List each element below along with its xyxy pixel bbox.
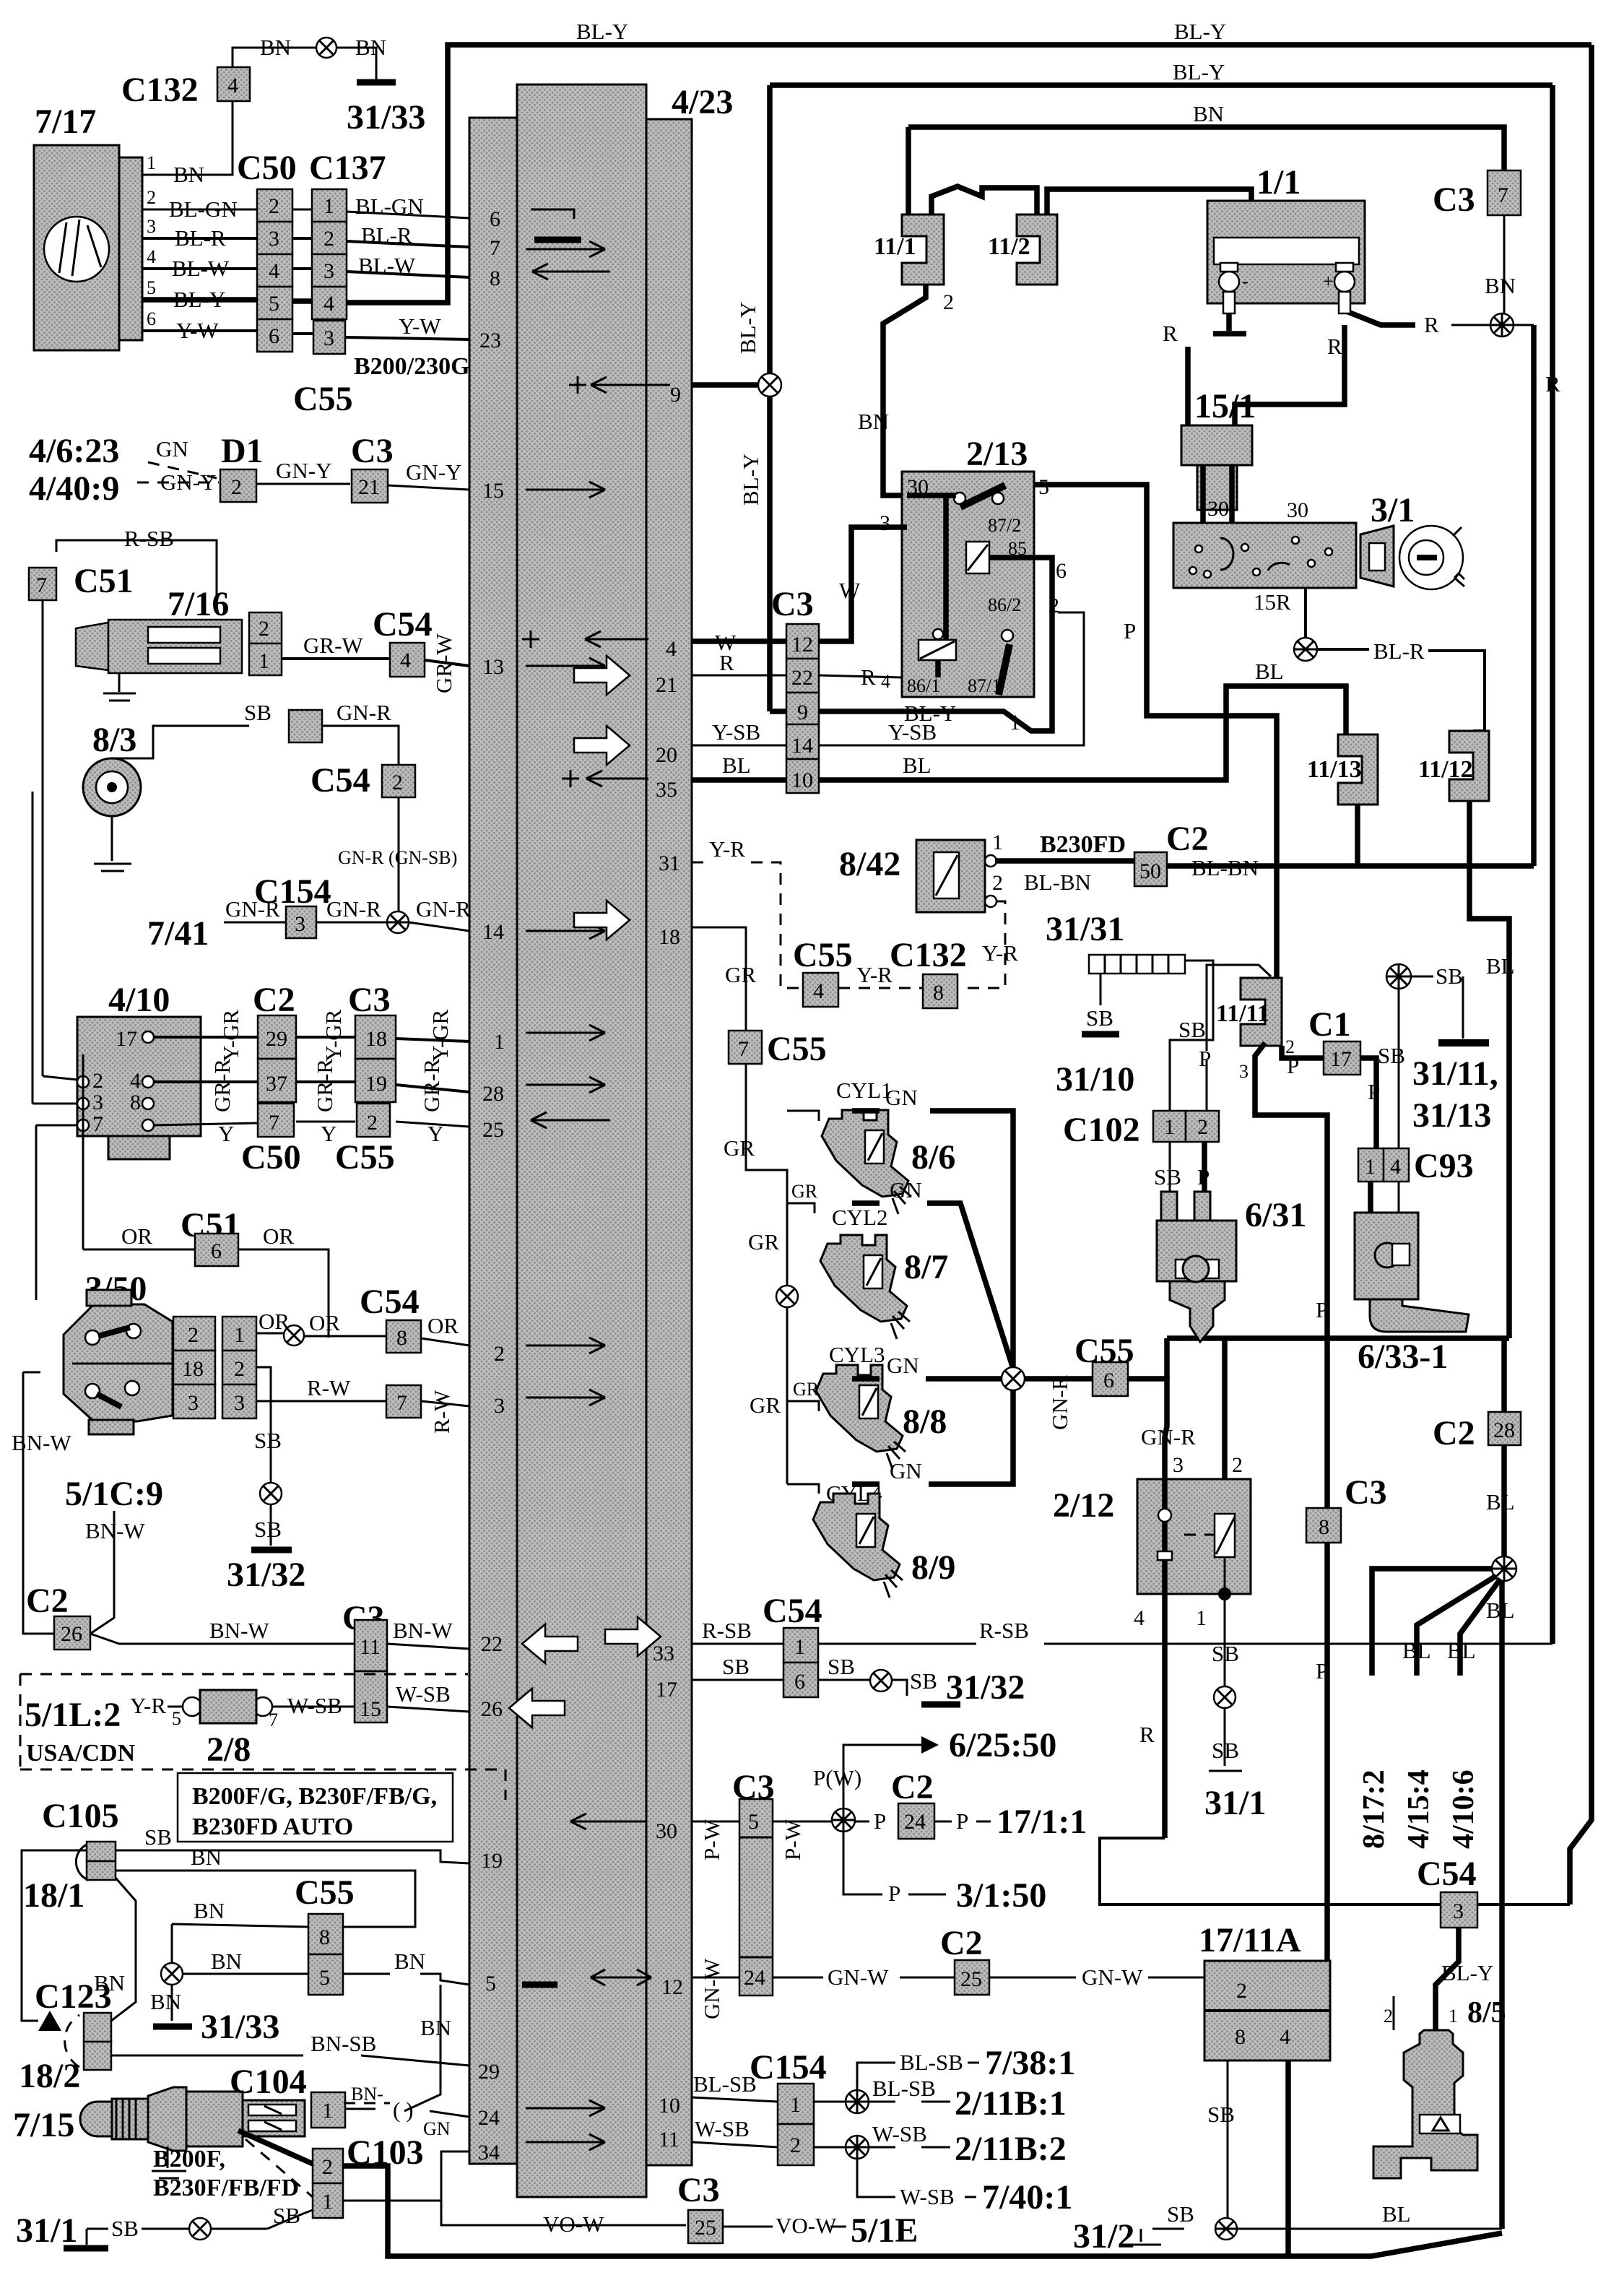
svg-text:USA/CDN: USA/CDN	[26, 1740, 136, 1767]
P down to 3/1:50	[843, 1832, 882, 1894]
svg-text:4/10: 4/10	[108, 981, 170, 1019]
pin3 wire down to P bus	[1255, 1043, 1327, 1961]
svg-text:31/2: 31/2	[1073, 2217, 1134, 2255]
svg-text:8/5: 8/5	[1467, 1996, 1506, 2029]
ignition coil 6/33-1	[1368, 1182, 1373, 1257]
svg-text:R-W: R-W	[307, 1375, 351, 1400]
svg-text:5: 5	[172, 1708, 181, 1729]
svg-text:1: 1	[322, 2099, 333, 2123]
svg-text:BN-W: BN-W	[12, 1430, 71, 1455]
svg-text:6: 6	[1103, 1369, 1114, 1392]
svg-text:BN: BN	[420, 2015, 451, 2040]
svg-text:C93: C93	[1414, 1147, 1474, 1185]
svg-text:2: 2	[92, 1069, 103, 1093]
svg-text:19: 19	[481, 1849, 503, 1873]
svg-text:C3: C3	[351, 432, 394, 470]
svg-text:31/11,: 31/11,	[1412, 1054, 1498, 1093]
engine variant box	[178, 1773, 453, 1842]
ECU control unit 4/23 right strip	[646, 119, 692, 2165]
svg-text:C55: C55	[293, 380, 353, 418]
svg-text:C54: C54	[1417, 1855, 1477, 1893]
svg-text:SB: SB	[1378, 1043, 1405, 1068]
svg-text:28: 28	[482, 1082, 504, 1106]
svg-text:17: 17	[1330, 1047, 1352, 1071]
svg-text:31/32: 31/32	[946, 1668, 1025, 1707]
svg-text:6: 6	[490, 207, 500, 231]
svg-text:BN: BN	[260, 35, 291, 60]
svg-text:Y-GR: Y-GR	[218, 1009, 243, 1062]
svg-text:1: 1	[1164, 1115, 1175, 1139]
ECU control unit 4/23 middle strip	[517, 84, 646, 2197]
svg-text:2: 2	[188, 1323, 199, 1347]
svg-text:29: 29	[266, 1027, 287, 1051]
svg-text:24: 24	[744, 1966, 765, 1990]
svg-text:2: 2	[269, 194, 279, 218]
svg-text:C2: C2	[1433, 1414, 1475, 1452]
connector C93	[1358, 1148, 1384, 1182]
BN-SB row to pin 29	[111, 2055, 469, 2066]
svg-text:7: 7	[738, 1037, 749, 1061]
svg-text:1: 1	[992, 831, 1003, 854]
svg-text:BL-Y: BL-Y	[1174, 19, 1226, 44]
svg-text:4/10:6: 4/10:6	[1447, 1769, 1480, 1849]
svg-text:GR: GR	[791, 1181, 818, 1202]
svg-text:GN: GN	[156, 436, 188, 461]
svg-text:11/1: 11/1	[874, 233, 916, 260]
svg-text:5/1L:2: 5/1L:2	[25, 1696, 121, 1734]
connector 11/12	[1449, 731, 1489, 801]
svg-text:P: P	[1316, 1297, 1328, 1322]
svg-text:BL-Y: BL-Y	[576, 19, 628, 44]
svg-text:8: 8	[1319, 1515, 1329, 1539]
svg-text:23: 23	[479, 329, 501, 352]
svg-text:BL-Y: BL-Y	[173, 287, 225, 312]
svg-text:GR: GR	[793, 1379, 820, 1400]
svg-text:BL-BN: BL-BN	[1191, 855, 1259, 880]
svg-text:C50: C50	[241, 1138, 301, 1176]
svg-text:8: 8	[933, 981, 944, 1005]
svg-text:8: 8	[396, 1326, 407, 1350]
svg-text:18/1: 18/1	[23, 1876, 84, 1915]
svg-text:15R: 15R	[1254, 589, 1291, 615]
svg-text:BL-BN: BL-BN	[1024, 870, 1091, 895]
svg-text:P(W): P(W)	[813, 1765, 861, 1790]
svg-text:5/1C:9: 5/1C:9	[65, 1475, 163, 1513]
svg-text:3: 3	[324, 259, 334, 283]
connector 11/1	[902, 214, 944, 285]
svg-text:31/33: 31/33	[347, 98, 425, 136]
svg-text:C132: C132	[890, 936, 967, 974]
svg-text:P-W: P-W	[780, 1819, 805, 1860]
svg-text:+: +	[1323, 271, 1334, 292]
splice BN/R	[1490, 313, 1514, 337]
svg-text:25: 25	[960, 1967, 982, 1991]
svg-text:7: 7	[396, 1391, 407, 1415]
BN splice to ground 31/33	[161, 1963, 183, 1985]
svg-text:W-SB: W-SB	[695, 2116, 750, 2141]
svg-text:7: 7	[490, 236, 500, 260]
svg-text:BL: BL	[1486, 1489, 1515, 1514]
svg-text:26: 26	[481, 1697, 503, 1721]
svg-text:17: 17	[116, 1027, 137, 1051]
svg-text:1: 1	[147, 152, 156, 173]
svg-text:BN-: BN-	[351, 2084, 383, 2105]
svg-text:BL: BL	[1486, 1598, 1515, 1623]
svg-text:R: R	[719, 650, 734, 675]
svg-text:P-W: P-W	[699, 1819, 724, 1860]
wires below 11/13 11/12	[1355, 805, 1360, 866]
svg-text:C1: C1	[1308, 1005, 1351, 1044]
svg-text:1/1: 1/1	[1256, 163, 1300, 201]
svg-text:8: 8	[490, 266, 500, 290]
svg-text:6: 6	[269, 324, 279, 348]
svg-text:11/12: 11/12	[1418, 756, 1473, 783]
svg-text:Y-GR: Y-GR	[321, 1009, 346, 1062]
svg-text:1: 1	[324, 194, 334, 218]
W net	[692, 527, 907, 641]
svg-text:4: 4	[881, 671, 890, 692]
svg-text:15: 15	[482, 479, 504, 503]
svg-text:19: 19	[365, 1072, 387, 1096]
BN from C55-5 to pin 5	[343, 1974, 469, 1985]
svg-text:3/1:50: 3/1:50	[956, 1876, 1046, 1915]
svg-text:5: 5	[147, 277, 156, 298]
svg-text:4: 4	[1280, 2025, 1290, 2049]
svg-text:10: 10	[659, 2094, 680, 2118]
svg-text:2: 2	[992, 871, 1003, 895]
svg-text:B230FD AUTO: B230FD AUTO	[192, 1813, 353, 1840]
svg-text:3: 3	[324, 326, 334, 350]
svg-text:2: 2	[943, 290, 954, 314]
svg-text:P: P	[1124, 618, 1136, 643]
svg-text:BL: BL	[1382, 2201, 1411, 2227]
svg-text:SB: SB	[1167, 2201, 1194, 2227]
svg-text:2: 2	[1384, 2006, 1393, 2027]
BL row	[692, 686, 1346, 780]
svg-text:OR: OR	[309, 1310, 340, 1335]
svg-text:6/25:50: 6/25:50	[949, 1726, 1056, 1764]
svg-text:C3: C3	[1433, 181, 1475, 219]
svg-text:2: 2	[1048, 594, 1059, 617]
svg-text:SB: SB	[111, 2216, 139, 2241]
svg-text:7/41: 7/41	[147, 914, 209, 953]
svg-text:Y-GR: Y-GR	[427, 1009, 453, 1062]
BL-R to 11/12	[1317, 649, 1485, 731]
svg-text:8: 8	[319, 1925, 330, 1949]
svg-text:B230FD: B230FD	[1040, 831, 1126, 858]
svg-text:2/11B:2: 2/11B:2	[955, 2130, 1067, 2168]
svg-text:C54: C54	[373, 605, 433, 643]
svg-text:2/12: 2/12	[1053, 1486, 1114, 1525]
svg-text:GR: GR	[748, 1229, 779, 1254]
svg-text:R-SB: R-SB	[124, 526, 174, 551]
svg-text:GN-W: GN-W	[1082, 1964, 1143, 1990]
svg-text:R: R	[1139, 1722, 1155, 1747]
svg-text:7/16: 7/16	[168, 585, 229, 623]
wire GR-W to C54-4	[282, 659, 469, 666]
svg-text:BL: BL	[722, 753, 751, 778]
svg-text:Y: Y	[427, 1121, 443, 1146]
svg-text:2: 2	[322, 2155, 333, 2179]
svg-text:B200F/G, B230F/FB/G,: B200F/G, B230F/FB/G,	[192, 1783, 437, 1810]
svg-text:GN-W: GN-W	[828, 1964, 889, 1990]
svg-text:1: 1	[494, 1030, 505, 1054]
svg-text:GN-R: GN-R	[1047, 1375, 1072, 1430]
battery plus down to fuse	[1235, 325, 1345, 425]
svg-text:1: 1	[1196, 1606, 1207, 1630]
svg-text:2: 2	[231, 475, 242, 499]
svg-text:1: 1	[1365, 1155, 1376, 1179]
svg-text:SB: SB	[1154, 1164, 1181, 1189]
Y-SB row	[692, 612, 1084, 745]
svg-text:Y-SB: Y-SB	[712, 719, 760, 745]
svg-text:BN: BN	[355, 35, 386, 60]
wire rows 7/17 to C50/C137	[142, 209, 469, 218]
connector 11/13	[1338, 734, 1378, 805]
svg-text:4: 4	[400, 649, 411, 672]
svg-text:B230F/FB/FD: B230F/FB/FD	[153, 2175, 299, 2201]
svg-text:GN: GN	[887, 1353, 919, 1378]
svg-text:8: 8	[130, 1091, 141, 1114]
svg-text:C2: C2	[891, 1768, 934, 1806]
svg-text:SB: SB	[1178, 1017, 1206, 1042]
svg-text:7: 7	[1498, 183, 1508, 207]
svg-text:4: 4	[147, 246, 156, 267]
svg-text:15: 15	[360, 1697, 381, 1721]
svg-text:2: 2	[259, 617, 269, 641]
svg-text:BL-Y: BL-Y	[738, 454, 763, 506]
svg-text:BN: BN	[211, 1949, 242, 1974]
svg-text:C3: C3	[771, 585, 814, 623]
svg-text:R: R	[1327, 334, 1342, 359]
svg-text:GN-R: GN-R	[225, 896, 280, 922]
svg-text:2: 2	[234, 1357, 245, 1381]
svg-text:BL-R: BL-R	[1373, 638, 1425, 664]
svg-text:CYL1: CYL1	[836, 1078, 893, 1103]
svg-text:BN-SB: BN-SB	[311, 2031, 376, 2056]
svg-text:B200F,: B200F,	[153, 2146, 225, 2172]
svg-text:BL-GN: BL-GN	[355, 194, 424, 219]
svg-text:22: 22	[481, 1632, 503, 1656]
svg-text:BN: BN	[173, 162, 204, 187]
svg-text:C3: C3	[1345, 1473, 1387, 1512]
svg-text:3: 3	[1239, 1061, 1249, 1082]
wire BL-Y bus 2	[770, 82, 1553, 88]
svg-text:BN: BN	[194, 1898, 225, 1923]
OR row to C54-8	[256, 1333, 469, 1345]
svg-text:CYL3: CYL3	[829, 1342, 885, 1367]
svg-text:GN: GN	[890, 1458, 922, 1483]
svg-text:OR: OR	[263, 1223, 294, 1249]
svg-text:BL: BL	[1486, 953, 1515, 979]
relay coil 2	[919, 640, 956, 660]
svg-text:SB: SB	[1436, 963, 1463, 989]
svg-text:3: 3	[494, 1394, 505, 1418]
svg-text:2/11B:1: 2/11B:1	[955, 2084, 1067, 2123]
svg-text:4: 4	[130, 1069, 141, 1093]
svg-text:7: 7	[269, 1709, 278, 1730]
svg-text:31/31: 31/31	[1046, 910, 1124, 948]
svg-text:8/8: 8/8	[903, 1403, 947, 1441]
svg-text:6: 6	[211, 1239, 222, 1263]
svg-text:GN: GN	[890, 1177, 922, 1202]
svg-text:4/6:23: 4/6:23	[29, 432, 119, 470]
svg-text:R: R	[1163, 321, 1178, 346]
right strip pin numbers	[653, 383, 683, 2151]
svg-text:BL-SB: BL-SB	[693, 2071, 757, 2097]
svg-text:6: 6	[794, 1670, 805, 1694]
svg-text:SB: SB	[1207, 2102, 1235, 2127]
svg-text:14: 14	[791, 734, 813, 758]
svg-text:15/1: 15/1	[1194, 387, 1256, 425]
svg-text:BL-SB: BL-SB	[900, 2050, 963, 2075]
svg-text:BL-GN: BL-GN	[169, 196, 238, 222]
svg-text:14: 14	[482, 920, 504, 944]
svg-text:R: R	[861, 664, 876, 690]
svg-text:C50: C50	[237, 149, 297, 187]
svg-text:30: 30	[656, 1819, 677, 1843]
svg-text:3: 3	[92, 1091, 103, 1114]
svg-text:R-W: R-W	[429, 1390, 454, 1434]
svg-text:BN: BN	[150, 1989, 181, 2014]
switch 15R down to splice	[1304, 588, 1307, 638]
svg-text:R: R	[1424, 312, 1439, 337]
fuel pump 8/5	[1373, 1996, 1477, 2178]
svg-text:6: 6	[147, 308, 156, 329]
svg-text:18: 18	[659, 925, 680, 949]
svg-text:3: 3	[295, 912, 305, 936]
svg-text:4: 4	[227, 74, 238, 97]
heavy wire C103-2 to bottom line	[343, 2166, 1502, 2256]
svg-text:33: 33	[653, 1642, 674, 1665]
thick wire sensor to C103	[238, 2131, 313, 2164]
svg-text:OR: OR	[121, 1223, 152, 1249]
svg-text:1: 1	[1449, 2006, 1458, 2027]
svg-text:BN: BN	[191, 1845, 222, 1870]
relay contacts	[954, 493, 965, 504]
svg-text:34: 34	[478, 2141, 500, 2164]
svg-text:10: 10	[791, 768, 813, 792]
svg-text:50: 50	[1139, 859, 1161, 883]
svg-text:8/42: 8/42	[839, 845, 900, 883]
svg-text:W-SB: W-SB	[396, 1681, 451, 1707]
svg-text:5: 5	[269, 292, 279, 316]
svg-text:31/13: 31/13	[1412, 1096, 1491, 1135]
svg-text:17: 17	[656, 1678, 677, 1702]
svg-text:P: P	[1368, 1079, 1380, 1104]
in-bar arrows	[509, 209, 670, 2150]
GN row CYL1	[852, 1111, 1013, 1379]
svg-text:GN-R: GN-R	[416, 896, 471, 922]
svg-text:7: 7	[269, 1111, 279, 1135]
svg-text:C2: C2	[26, 1582, 69, 1620]
svg-text:BL: BL	[903, 753, 932, 778]
BN bus drop to 11/1 and zigzag link	[906, 127, 911, 214]
svg-text:21: 21	[656, 673, 677, 697]
svg-text:SB: SB	[910, 1668, 937, 1694]
svg-text:8/3: 8/3	[92, 721, 136, 759]
svg-text:W-SB: W-SB	[900, 2184, 955, 2209]
svg-text:2: 2	[494, 1342, 505, 1366]
svg-text:-: -	[1242, 271, 1249, 292]
connector 11/11	[1241, 978, 1282, 1046]
svg-text:GN-R: GN-R	[336, 700, 391, 725]
svg-text:Y-R: Y-R	[856, 962, 893, 987]
svg-text:GN: GN	[885, 1085, 918, 1110]
svg-text:C54: C54	[360, 1283, 420, 1321]
svg-text:11: 11	[360, 1635, 381, 1659]
svg-text:12: 12	[791, 633, 813, 656]
svg-text:2: 2	[324, 227, 334, 251]
svg-text:4/15:4: 4/15:4	[1402, 1769, 1436, 1849]
svg-text:2: 2	[367, 1111, 378, 1135]
svg-text:31/1: 31/1	[16, 2211, 77, 2250]
svg-text:18: 18	[365, 1027, 387, 1051]
svg-text:R-SB: R-SB	[702, 1618, 752, 1643]
svg-text:GR-W: GR-W	[303, 633, 363, 658]
svg-text:GN: GN	[423, 2118, 451, 2139]
svg-text:11/11: 11/11	[1216, 1000, 1269, 1027]
svg-text:7/38:1: 7/38:1	[985, 2044, 1075, 2082]
dashed box USA/CDN	[20, 1674, 505, 1800]
svg-text:SB: SB	[273, 2203, 300, 2228]
svg-text:4: 4	[813, 979, 824, 1003]
svg-text:7: 7	[92, 1112, 103, 1136]
svg-text:GN-Y: GN-Y	[406, 459, 462, 485]
svg-text:C2: C2	[1166, 820, 1209, 858]
svg-text:87/2: 87/2	[988, 515, 1021, 536]
svg-text:31/10: 31/10	[1056, 1060, 1134, 1098]
svg-text:C104: C104	[230, 2063, 307, 2101]
svg-text:C123: C123	[35, 1977, 112, 2016]
svg-text:Y-R: Y-R	[709, 836, 745, 862]
svg-text:BL-W: BL-W	[358, 253, 416, 278]
wire BN splice BN at top of C132	[233, 48, 376, 81]
svg-text:7: 7	[36, 573, 47, 597]
svg-text:6: 6	[1056, 559, 1067, 583]
svg-text:C51: C51	[74, 562, 134, 600]
svg-text:25: 25	[482, 1118, 504, 1142]
svg-text:4: 4	[1134, 1606, 1145, 1630]
battery plus wire R	[1345, 292, 1415, 325]
svg-text:31/33: 31/33	[201, 2008, 279, 2046]
svg-text:3: 3	[880, 511, 890, 535]
svg-text:3: 3	[269, 227, 279, 251]
svg-text:C2: C2	[253, 981, 295, 1019]
svg-text:SB: SB	[254, 1428, 282, 1453]
svg-text:2: 2	[147, 187, 156, 208]
SB chain below 2/12 to 31/1	[1209, 1594, 1242, 1771]
svg-text:C3: C3	[348, 981, 391, 1019]
svg-text:18: 18	[182, 1357, 204, 1381]
svg-text:4: 4	[269, 259, 279, 283]
left strip pin numbers	[478, 207, 505, 2164]
svg-text:VO-W: VO-W	[776, 2213, 837, 2238]
wire P from relay 5	[1034, 485, 1277, 978]
svg-text:Y-R: Y-R	[982, 940, 1018, 966]
svg-text:11/13: 11/13	[1307, 756, 1362, 783]
R row	[692, 675, 902, 677]
SB splice top	[1386, 964, 1411, 989]
svg-text:1: 1	[790, 2093, 801, 2117]
svg-text:GN-R (GN-SB): GN-R (GN-SB)	[338, 847, 457, 868]
svg-text:5/1E: 5/1E	[851, 2211, 918, 2250]
battery minus to ground	[1213, 292, 1246, 334]
svg-text:3: 3	[1453, 1899, 1464, 1923]
svg-text:35: 35	[656, 778, 677, 802]
svg-text:C105: C105	[42, 1797, 119, 1835]
svg-text:9: 9	[797, 701, 808, 724]
